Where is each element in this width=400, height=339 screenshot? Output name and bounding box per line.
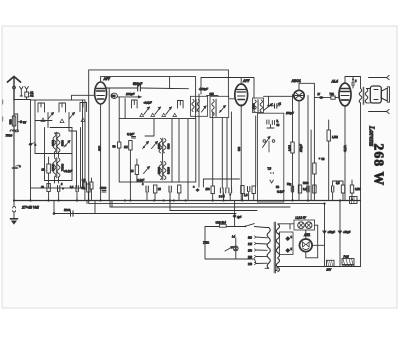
svg-text:5000: 5000 bbox=[100, 186, 107, 190]
wire: antenna down-lead bbox=[13, 100, 15, 201]
antenna socket plug 2 bbox=[20, 87, 24, 97]
ground symbol bbox=[11, 201, 18, 225]
resistor 500 on down-lead bbox=[9, 116, 16, 126]
electrolytic cap 2 bbox=[338, 201, 351, 267]
node a on down-lead bbox=[13, 164, 22, 168]
heater return wire bbox=[205, 227, 256, 264]
coil forms top row inside box1 bbox=[38, 103, 87, 113]
osc coil pair upper bbox=[158, 138, 171, 154]
tube2 anode wire down bbox=[240, 104, 242, 200]
svg-text:780: 780 bbox=[111, 95, 116, 98]
Lorenz logo text bbox=[368, 125, 387, 186]
svg-text:50: 50 bbox=[113, 145, 117, 149]
svg-text:220: 220 bbox=[248, 256, 253, 259]
mains switch bbox=[205, 201, 266, 228]
cap 5000 under left area bbox=[100, 186, 107, 192]
heater bus 3 bbox=[110, 201, 290, 208]
field coil Feld bbox=[342, 255, 355, 267]
svg-text:AF7: AF7 bbox=[242, 79, 251, 83]
node on box1 edge bbox=[29, 143, 37, 147]
ABC1 cathode down bbox=[299, 101, 303, 201]
svg-text:100pF: 100pF bbox=[126, 92, 135, 96]
IF filter box A bbox=[191, 96, 208, 116]
volume control box bbox=[258, 113, 285, 202]
IF coil pair lower (10000/70000) bbox=[51, 158, 65, 184]
svg-text:3000: 3000 bbox=[253, 103, 256, 109]
antenna socket plug 3 with coupling block bbox=[25, 87, 34, 98]
svg-text:5 0 5: 5 0 5 bbox=[219, 196, 225, 199]
volume pot branch bbox=[308, 96, 325, 201]
tube AL4 bbox=[331, 80, 352, 106]
wave switch contact row bbox=[119, 97, 183, 119]
svg-text:0,1μF: 0,1μF bbox=[127, 132, 134, 136]
svg-text:0,1μF: 0,1μF bbox=[137, 178, 144, 182]
coupling cap (black lens) bbox=[318, 92, 331, 99]
grid cap oval 780 bbox=[111, 93, 117, 98]
box1 left edge to bus bbox=[30, 188, 32, 201]
choke 20V bbox=[326, 260, 335, 271]
AVC line with 5000 cap bbox=[53, 201, 236, 217]
svg-text:2T+4B Volt: 2T+4B Volt bbox=[21, 206, 40, 210]
svg-text:A2: A2 bbox=[30, 94, 34, 98]
transformer bottom out bbox=[276, 267, 278, 271]
trimmer arrow box2 lower bbox=[144, 167, 150, 174]
electrolytic cap 1 bbox=[323, 204, 336, 267]
wire with arrow 100pF into box2 bbox=[117, 92, 141, 98]
heater bus 2 bbox=[89, 201, 325, 204]
svg-text:10000: 10000 bbox=[51, 163, 55, 171]
component row under box2 bbox=[130, 182, 188, 201]
svg-text:AF7: AF7 bbox=[103, 77, 112, 81]
svg-text:41,5A: 41,5A bbox=[343, 145, 347, 152]
wires inside box1 bbox=[35, 100, 83, 188]
component row above bus right bbox=[287, 180, 361, 201]
svg-text:5,: 5, bbox=[277, 120, 279, 123]
cap 0,1uF box2 bbox=[127, 132, 136, 138]
svg-text:AVC: AVC bbox=[98, 146, 102, 151]
svg-text:110: 110 bbox=[248, 237, 252, 240]
tube1 grid wire bbox=[72, 95, 95, 100]
svg-text:7,5Ω: 7,5Ω bbox=[203, 241, 210, 245]
antenna A1 bbox=[8, 77, 21, 101]
svg-text:0,5: 0,5 bbox=[336, 182, 340, 185]
resistor 10,4 left of lower coil bbox=[42, 157, 51, 188]
svg-text:300: 300 bbox=[238, 146, 241, 151]
grid resistor before AL4 bbox=[330, 92, 339, 99]
svg-text:7500: 7500 bbox=[6, 134, 13, 138]
trimmer arrows box2 bbox=[143, 142, 158, 149]
AL4 cathode down-wire bbox=[343, 106, 347, 200]
svg-text:10000: 10000 bbox=[158, 166, 161, 174]
speaker frame bracket bottom bbox=[369, 109, 390, 113]
pilot lamps box L1 L2 bbox=[294, 216, 315, 231]
svg-text:1,5M: 1,5M bbox=[332, 135, 338, 139]
svg-text:0,1: 0,1 bbox=[70, 186, 74, 189]
wave switch arrows in box1 bbox=[41, 113, 85, 123]
band filter box 1 bbox=[31, 100, 86, 188]
bus junction dots bbox=[13, 199, 341, 204]
tube AF7 no.1 bbox=[95, 77, 111, 104]
svg-text:U0D414: U0D414 bbox=[216, 221, 227, 225]
AZ1 wires bbox=[278, 224, 325, 258]
svg-text:3000: 3000 bbox=[51, 140, 55, 146]
tube1 cathode down-wire bbox=[98, 104, 102, 201]
svg-text:7,5: 7,5 bbox=[268, 167, 272, 171]
loudspeaker bbox=[367, 86, 390, 103]
heater bus 4 bbox=[170, 210, 257, 212]
IF coil pair upper (3000/5000) bbox=[51, 132, 65, 157]
second screen box top bbox=[201, 78, 254, 96]
svg-text:240: 240 bbox=[248, 263, 253, 266]
svg-text:500: 500 bbox=[9, 119, 13, 124]
svg-text:57: 57 bbox=[23, 121, 27, 125]
detector diode load bbox=[264, 96, 282, 110]
heater junction box bbox=[278, 232, 293, 255]
oscillator box 2 bbox=[119, 119, 196, 183]
component row above bus mid bbox=[193, 112, 256, 202]
svg-text:10,: 10, bbox=[42, 168, 46, 172]
svg-text:50μ: 50μ bbox=[287, 183, 292, 186]
svg-text:4μF: 4μF bbox=[237, 216, 242, 219]
wire y88 with 500pF cap bbox=[107, 77, 189, 91]
trimmer arrow in box1 mid bbox=[64, 141, 70, 148]
resistor 1M box2 bbox=[124, 141, 132, 151]
svg-text:100pF: 100pF bbox=[299, 144, 303, 152]
power transformer T1 bbox=[265, 222, 280, 273]
svg-text:AL4: AL4 bbox=[331, 80, 339, 84]
outer screen box right edge bbox=[227, 70, 229, 97]
svg-text:L4: L4 bbox=[232, 235, 236, 239]
outer screen box top bbox=[89, 69, 229, 71]
svg-text:5,0: 5,0 bbox=[82, 179, 86, 182]
svg-text:1000: 1000 bbox=[158, 143, 161, 149]
pilot lamp L4 bbox=[225, 235, 238, 260]
svg-text:0,3M: 0,3M bbox=[288, 145, 292, 151]
resistor 15 box2 lower bbox=[131, 165, 139, 175]
wire to tube2 grid bbox=[230, 98, 236, 100]
svg-text:0,1μF: 0,1μF bbox=[277, 190, 284, 194]
svg-text:ABC1: ABC1 bbox=[291, 79, 301, 83]
inner screen box top bbox=[101, 76, 196, 78]
wire IFT3 to ABC1 bbox=[254, 96, 295, 99]
IF transformer 3 bbox=[253, 98, 264, 113]
IFT2 feed stub bbox=[207, 94, 219, 96]
svg-text:268 W: 268 W bbox=[372, 144, 387, 187]
svg-text:5000: 5000 bbox=[61, 140, 65, 146]
tube ABC1 bbox=[291, 79, 305, 101]
svg-text:1M: 1M bbox=[124, 145, 128, 149]
svg-text:3000: 3000 bbox=[168, 143, 171, 149]
svg-text:500pF: 500pF bbox=[133, 82, 143, 86]
bottom rail bbox=[277, 266, 361, 268]
svg-text:20V: 20V bbox=[326, 268, 332, 272]
svg-text:30000: 30000 bbox=[168, 166, 171, 174]
output transformer bbox=[359, 77, 368, 267]
main ground bus bbox=[14, 200, 361, 202]
RF filter box 3 left leg bbox=[198, 94, 200, 187]
resistor 0,3M left detector bbox=[288, 95, 295, 201]
svg-text:5000: 5000 bbox=[303, 182, 309, 185]
coil 7500 bbox=[6, 130, 19, 138]
svg-text:+50μF: +50μF bbox=[328, 230, 336, 234]
svg-text:Feld: Feld bbox=[344, 255, 350, 259]
diode return wire bbox=[310, 130, 312, 201]
svg-text:700: 700 bbox=[330, 92, 335, 96]
ABC1 top wire to volume/AL4 bbox=[299, 83, 319, 97]
rectifier AZ1 bbox=[300, 233, 313, 252]
bus stubs bbox=[87, 201, 170, 214]
svg-text:+0,1μF: +0,1μF bbox=[64, 169, 73, 173]
svg-text:+0,1μF: +0,1μF bbox=[144, 101, 153, 105]
svg-text:5000: 5000 bbox=[64, 208, 71, 212]
IF transformer 2 bbox=[210, 93, 229, 117]
svg-text:125: 125 bbox=[248, 243, 253, 246]
speaker field connector box on bus bbox=[350, 197, 358, 204]
speaker frame bracket top bbox=[369, 75, 390, 79]
screen cap at AL4 bbox=[352, 77, 357, 89]
svg-text:L1,L2 6V: L1,L2 6V bbox=[296, 216, 307, 220]
svg-text:1,5: 1,5 bbox=[244, 194, 248, 197]
screen feed wire bbox=[108, 88, 110, 201]
osc coil pair lower bbox=[137, 161, 171, 182]
svg-text:100: 100 bbox=[206, 188, 211, 191]
svg-text:hf: hf bbox=[318, 92, 320, 96]
resistor 1,5M mid bbox=[327, 120, 338, 201]
svg-text:50: 50 bbox=[276, 185, 280, 189]
svg-text:+50μF: +50μF bbox=[343, 230, 351, 234]
wires inside box2 bbox=[130, 77, 195, 182]
svg-text:150: 150 bbox=[248, 250, 253, 253]
wire antenna to filter box bbox=[14, 97, 31, 100]
svg-text:4·30pF: 4·30pF bbox=[199, 87, 208, 91]
page edge scan marks bbox=[2, 100, 4, 121]
resistor 50 on box2 edge bbox=[113, 142, 121, 149]
component row under box1 bbox=[41, 183, 90, 201]
trimmer cap 57 bbox=[14, 114, 27, 132]
outer screen box left edge bbox=[88, 70, 90, 201]
svg-text:AZ1: AZ1 bbox=[303, 233, 310, 237]
transformer primary taps bbox=[248, 236, 267, 266]
AL4 top wire bbox=[345, 77, 361, 83]
tube AF7 no.2 bbox=[235, 78, 251, 106]
svg-text:0,5M: 0,5M bbox=[355, 188, 361, 191]
resistor pair under box1 right bbox=[82, 178, 93, 201]
